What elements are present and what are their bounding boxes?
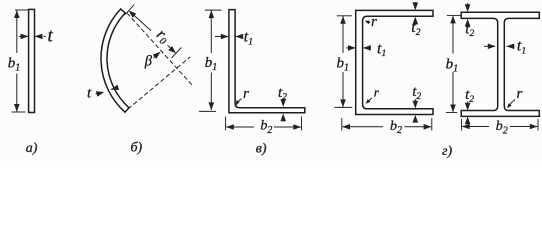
svg-text:t: t (48, 26, 54, 47)
dimension t panel a (19, 35, 28, 37)
dimension b1 line a (16, 10, 18, 53)
dimension t1 channel (346, 47, 355, 49)
dimension b1 line v (210, 10, 212, 53)
dimension t2 top I-beam (467, 3, 469, 8)
dashed radius line top b (127, 13, 192, 85)
svg-text:б): б) (131, 141, 143, 156)
extension tick bottom v (199, 110, 216, 112)
dimension b1 I-beam (447, 14, 461, 16)
I-beam section (461, 12, 539, 116)
end tick r0 top (125, 5, 135, 16)
dimension b1 channel (337, 15, 352, 17)
angle section v (229, 10, 305, 113)
curved open section b (101, 9, 129, 112)
dimension t1 I-beam (484, 45, 495, 47)
dimension t1 panel v (215, 36, 228, 38)
svg-text:r: r (243, 86, 249, 102)
dashed radius line bottom b (128, 57, 190, 109)
dimension t2 top channel (414, 2, 416, 7)
plate section a (29, 9, 35, 112)
dimension b2 I-beam (461, 119, 463, 131)
dimension b2 channel (341, 118, 343, 131)
dimension b2 panel v (225, 117, 227, 131)
end tick r0 bottom (172, 48, 182, 59)
svg-text:β: β (144, 54, 153, 70)
extension tick bottom a (12, 111, 26, 113)
svg-text:а): а) (26, 141, 38, 156)
svg-text:г): г) (442, 144, 452, 159)
channel section g (356, 10, 433, 114)
svg-text:r: r (517, 86, 523, 102)
svg-text:в): в) (256, 141, 267, 156)
svg-text:r: r (371, 14, 377, 30)
dimension r0 line b (134, 15, 152, 31)
extension tick top v (205, 9, 222, 11)
extension tick top a (15, 9, 28, 11)
